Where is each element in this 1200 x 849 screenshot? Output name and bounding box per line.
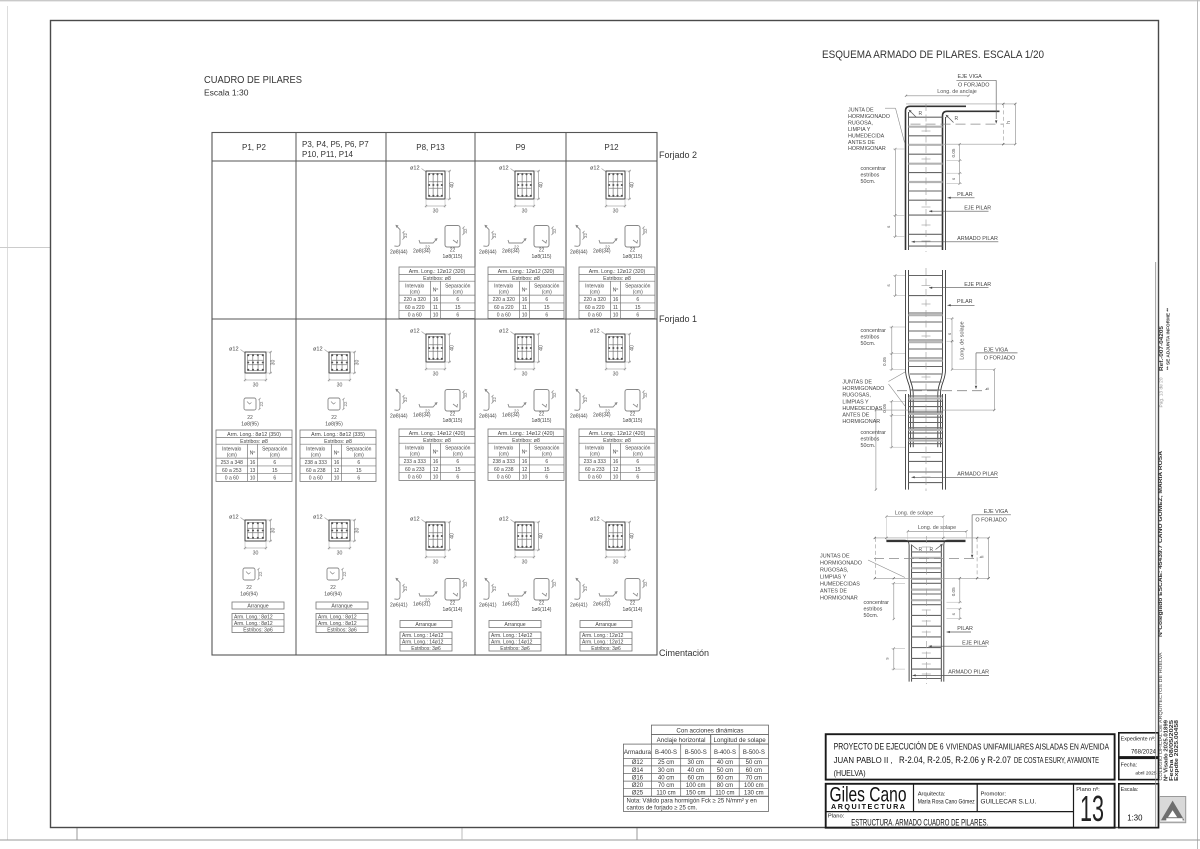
svg-text:ø12: ø12: [590, 517, 600, 523]
svg-text:R: R: [919, 111, 923, 117]
svg-text:(cm): (cm): [542, 452, 552, 458]
svg-text:Anclaje horizontal: Anclaje horizontal: [657, 737, 706, 744]
svg-text:Pág. 13 de 20: Pág. 13 de 20: [1159, 377, 1164, 408]
svg-text:(cm): (cm): [453, 452, 463, 458]
svg-text:238 a 333: 238 a 333: [305, 460, 327, 466]
svg-text:30: 30: [337, 383, 343, 389]
svg-text:1ø8(115): 1ø8(115): [532, 254, 552, 260]
dim 0.05 diagram 3: [959, 578, 961, 602]
svg-text:12: 12: [334, 468, 340, 474]
svg-text:ARMADO PILAR: ARMADO PILAR: [957, 236, 998, 242]
svg-text:Estribos: 3ø6: Estribos: 3ø6: [327, 627, 357, 633]
svg-text:Arm. Long.: 8ø12: Arm. Long.: 8ø12: [318, 615, 357, 621]
stirrups P8,P13 forjado1: [390, 389, 468, 425]
svg-text:LIMPIAS Y: LIMPIAS Y: [842, 399, 869, 405]
svg-text:15: 15: [455, 305, 461, 311]
svg-text:s: s: [947, 332, 952, 335]
svg-text:0 a 60: 0 a 60: [497, 475, 511, 481]
svg-text:Forjado 2: Forjado 2: [659, 150, 697, 160]
svg-text:30: 30: [522, 209, 528, 215]
svg-text:40: 40: [449, 345, 455, 351]
svg-text:ø12: ø12: [410, 517, 420, 523]
R radius arrow right: [947, 116, 954, 123]
svg-text:16: 16: [433, 297, 439, 303]
svg-text:ARMADO PILAR: ARMADO PILAR: [957, 472, 998, 478]
svg-text:Nº: Nº: [433, 450, 439, 456]
svg-text:Escala:: Escala:: [1121, 787, 1139, 793]
svg-text:10: 10: [433, 475, 439, 481]
svg-text:60 a 253: 60 a 253: [222, 468, 242, 474]
svg-text:Separación: Separación: [534, 283, 560, 289]
svg-text:O FORJADO: O FORJADO: [958, 83, 989, 89]
svg-text:40: 40: [538, 345, 544, 351]
svg-text:(cm): (cm): [311, 453, 321, 459]
svg-text:22: 22: [539, 248, 545, 254]
svg-text:6: 6: [636, 297, 639, 303]
svg-text:concentrar: concentrar: [861, 430, 887, 436]
arranque table P3-P7: [316, 602, 368, 633]
svg-text:16: 16: [522, 459, 528, 465]
svg-text:Nº: Nº: [334, 451, 340, 457]
svg-text:22: 22: [258, 571, 263, 576]
svg-text:Nota: Válido para hormigón Fck: Nota: Válido para hormigón Fck ≥ 25 N/mm…: [627, 799, 757, 805]
svg-text:6: 6: [545, 297, 548, 303]
svg-text:JUAN PABLO II ,: JUAN PABLO II ,: [834, 755, 893, 765]
svg-text:10: 10: [433, 313, 439, 319]
rebar B anchorage leg: [943, 111, 1000, 250]
svg-text:O FORJADO: O FORJADO: [975, 517, 1006, 523]
svg-text:Estribos: ø8: Estribos: ø8: [240, 439, 268, 445]
svg-text:PILAR: PILAR: [957, 192, 973, 198]
svg-text:(cm): (cm): [633, 452, 643, 458]
svg-text:30: 30: [270, 528, 276, 534]
svg-text:concentrar: concentrar: [861, 166, 887, 172]
svg-text:Separación: Separación: [445, 283, 471, 289]
svg-text:DE COSTA ESURY, AYAMONTE: DE COSTA ESURY, AYAMONTE: [1014, 755, 1099, 765]
lap splice funnel curves: [906, 370, 911, 395]
svg-text:220 a 320: 220 a 320: [404, 297, 426, 303]
stirrups P12 forjado1: [570, 389, 648, 425]
svg-text:Ø12: Ø12: [632, 760, 644, 766]
dim Long. de solape right diagram 2: [951, 319, 953, 370]
svg-text:60 a 233: 60 a 233: [585, 467, 605, 473]
svg-text:60 a 238: 60 a 238: [494, 467, 514, 473]
svg-text:40: 40: [449, 533, 455, 539]
svg-text:40: 40: [449, 182, 455, 188]
section 30x40 P9 forjado1: [499, 329, 544, 378]
column axis diagram 3: [925, 536, 927, 684]
svg-text:h: h: [980, 555, 986, 558]
svg-text:2ø6(41): 2ø6(41): [479, 603, 497, 609]
section 30x40 P8,P13 cimentacion: [410, 517, 455, 566]
left dims diagram 2: [891, 327, 893, 354]
svg-text:P12: P12: [604, 143, 619, 152]
svg-text:Arm. Long.: 12ø12 (320): Arm. Long.: 12ø12 (320): [589, 269, 646, 275]
svg-text:0.05: 0.05: [951, 148, 956, 157]
svg-text:ø12: ø12: [229, 347, 239, 353]
svg-text:María Rosa Cano Gómez: María Rosa Cano Gómez: [918, 799, 975, 806]
R radius arrow left: [910, 111, 917, 118]
svg-text:P9: P9: [516, 143, 526, 152]
svg-text:50cm.: 50cm.: [861, 443, 876, 449]
beam axis dashed diagram 2: [897, 390, 984, 392]
svg-text:12: 12: [613, 467, 619, 473]
svg-text:Ø14: Ø14: [632, 768, 644, 774]
svg-text:2ø8(34): 2ø8(34): [593, 249, 611, 255]
svg-text:32: 32: [583, 233, 588, 238]
svg-text:P10, P11, P14: P10, P11, P14: [302, 150, 354, 159]
svg-text:2ø8(44): 2ø8(44): [479, 250, 497, 256]
svg-text:Cimentación: Cimentación: [659, 648, 709, 658]
svg-text:ø12: ø12: [499, 329, 509, 335]
svg-text:Intervalo: Intervalo: [405, 445, 424, 451]
svg-text:R: R: [955, 116, 959, 122]
svg-text:2ø8(44): 2ø8(44): [390, 250, 408, 256]
dim 0.05 diagram 1: [959, 144, 961, 160]
svg-text:32: 32: [463, 392, 468, 397]
svg-text:(HUELVA): (HUELVA): [834, 768, 866, 778]
svg-text:11: 11: [522, 305, 527, 311]
fecha box: [1119, 758, 1159, 779]
svg-text:concentrar: concentrar: [861, 328, 887, 334]
svg-text:60 cm: 60 cm: [746, 768, 762, 774]
section 30x40 P8,P13 forjado2: [410, 166, 455, 215]
svg-text:30: 30: [337, 551, 343, 557]
svg-text:22: 22: [450, 601, 456, 607]
svg-text:Nº: Nº: [433, 288, 439, 294]
svg-text:0 a 60: 0 a 60: [225, 476, 239, 482]
svg-text:238 a 333: 238 a 333: [493, 459, 515, 465]
svg-text:ø12: ø12: [410, 166, 420, 172]
stirrups P9 forjado2: [479, 225, 557, 261]
svg-text:15: 15: [544, 305, 550, 311]
svg-text:1ø6(114): 1ø6(114): [532, 607, 552, 613]
page bottom rule: [0, 839, 1200, 841]
svg-text:1ø8(115): 1ø8(115): [443, 254, 463, 260]
svg-text:2ø8(44): 2ø8(44): [479, 414, 497, 420]
svg-text:Ø20: Ø20: [632, 783, 644, 789]
svg-text:15: 15: [635, 467, 641, 473]
svg-text:16: 16: [613, 459, 619, 465]
column bars diagram 2 lower lap (inner): [910, 394, 912, 447]
svg-text:40: 40: [538, 533, 544, 539]
stirrup P3-P7 cimentacion: [324, 568, 347, 597]
stirrup P1,P2 cimentacion: [240, 568, 263, 597]
svg-text:80 cm: 80 cm: [717, 783, 733, 789]
stirrup rungs diagram 3: [912, 551, 942, 553]
svg-text:Separación: Separación: [625, 283, 651, 289]
rebar table P9 forjado2: [488, 267, 564, 319]
svg-text:10: 10: [334, 476, 340, 482]
svg-text:estribos: estribos: [864, 607, 883, 613]
svg-text:6: 6: [273, 476, 276, 482]
svg-text:50 cm: 50 cm: [717, 768, 733, 774]
svg-text:10: 10: [250, 476, 256, 482]
svg-text:30 cm: 30 cm: [658, 768, 674, 774]
svg-text:0 a 60: 0 a 60: [309, 476, 323, 482]
svg-text:HORMIGONADO: HORMIGONADO: [848, 114, 890, 120]
stirrup P1,P2 forjado1: [241, 398, 264, 427]
svg-text:32: 32: [552, 228, 557, 233]
svg-text:** SE ADJUNTA INFORME **: ** SE ADJUNTA INFORME **: [1165, 308, 1170, 370]
svg-text:32: 32: [403, 233, 408, 238]
svg-text:50cm.: 50cm.: [861, 341, 876, 347]
svg-text:1ø8(34): 1ø8(34): [502, 413, 520, 419]
bottom fold tick 1: [76, 827, 78, 840]
svg-text:EJE PILAR: EJE PILAR: [964, 206, 991, 212]
svg-text:0.05: 0.05: [882, 403, 887, 412]
svg-text:Long. de solape: Long. de solape: [960, 321, 966, 359]
svg-text:(cm): (cm): [499, 290, 509, 296]
svg-text:220 a 320: 220 a 320: [584, 297, 606, 303]
svg-text:(cm): (cm): [542, 290, 552, 296]
svg-text:22: 22: [539, 412, 545, 418]
svg-text:Arm. Long.: 14ø12: Arm. Long.: 14ø12: [402, 640, 444, 646]
svg-text:Separación: Separación: [346, 446, 372, 452]
arranque table P8,P13: [400, 621, 452, 652]
svg-text:Nº: Nº: [250, 451, 256, 457]
svg-text:2ø8(34): 2ø8(34): [413, 249, 431, 255]
svg-text:JUNTA DE: JUNTA DE: [848, 108, 874, 114]
svg-text:6: 6: [636, 475, 639, 481]
svg-text:6: 6: [636, 313, 639, 319]
esquema diagram 3: column start at foundation: [820, 509, 1011, 684]
beam axis dashed diagram 3: [874, 558, 979, 560]
svg-text:LIMPIAS Y: LIMPIAS Y: [820, 575, 847, 581]
svg-text:EJE PILAR: EJE PILAR: [964, 282, 991, 288]
svg-text:P3, P4, P5, P6, P7: P3, P4, P5, P6, P7: [302, 140, 369, 149]
svg-text:Estribos: ø8: Estribos: ø8: [324, 439, 352, 445]
svg-text:ø12: ø12: [590, 329, 600, 335]
svg-text:Long. de anclaje: Long. de anclaje: [937, 89, 977, 95]
svg-text:estribos: estribos: [861, 172, 880, 178]
svg-text:220 a 320: 220 a 320: [493, 297, 515, 303]
svg-text:ø12: ø12: [410, 329, 420, 335]
svg-text:32: 32: [492, 586, 497, 591]
svg-text:Plano:: Plano:: [828, 814, 845, 820]
svg-text:Intervalo: Intervalo: [585, 445, 604, 451]
section 30x40 P12 forjado1: [590, 329, 635, 378]
section 30x40 P9 forjado2: [499, 166, 544, 215]
svg-text:HUMEDECIDAS: HUMEDECIDAS: [842, 406, 882, 412]
svg-text:40: 40: [629, 182, 635, 188]
svg-text:Arm. Long.: 14ø12 (420): Arm. Long.: 14ø12 (420): [409, 431, 466, 437]
esquema diagram 1: column head at beam: [848, 74, 1016, 252]
svg-text:32: 32: [643, 581, 648, 586]
svg-text:Arranque: Arranque: [331, 603, 352, 609]
svg-text:22: 22: [259, 401, 264, 406]
svg-text:Ref.-007-04205: Ref.-007-04205: [1159, 326, 1165, 371]
svg-text:2ø6(41): 2ø6(41): [570, 603, 588, 609]
svg-text:30: 30: [433, 560, 439, 566]
rebar table P12 forjado1: [579, 429, 655, 481]
svg-text:1:30: 1:30: [1127, 814, 1143, 823]
svg-text:6: 6: [545, 459, 548, 465]
colegio logo: [1160, 797, 1186, 823]
svg-text:h: h: [1006, 121, 1012, 124]
svg-text:VIVIENDAS UNIFAMILIARES AISLAD: VIVIENDAS UNIFAMILIARES AISLADAS EN AVEN…: [946, 742, 1109, 752]
svg-text:abril 2025: abril 2025: [1135, 771, 1156, 777]
svg-text:Arranque: Arranque: [247, 603, 268, 609]
svg-text:2ø6(41): 2ø6(41): [390, 603, 408, 609]
svg-text:32: 32: [492, 397, 497, 402]
svg-text:Nº: Nº: [522, 288, 528, 294]
svg-text:0.05: 0.05: [882, 357, 887, 366]
svg-text:6: 6: [636, 459, 639, 465]
svg-text:s: s: [951, 612, 956, 615]
svg-text:Estribos: 3ø6: Estribos: 3ø6: [591, 646, 621, 652]
svg-text:40 cm: 40 cm: [658, 775, 674, 781]
svg-text:Long. de solape: Long. de solape: [895, 511, 933, 517]
svg-text:RUGOSAS,: RUGOSAS,: [842, 393, 871, 399]
svg-text:1ø8(95): 1ø8(95): [325, 421, 343, 427]
svg-text:22: 22: [630, 412, 636, 418]
svg-text:Arm. Long.: 14ø12 (420): Arm. Long.: 14ø12 (420): [498, 431, 555, 437]
svg-text:0 a 60: 0 a 60: [588, 475, 602, 481]
svg-text:50cm.: 50cm.: [861, 179, 876, 185]
main table column divider 4: [565, 133, 567, 656]
svg-text:32: 32: [492, 233, 497, 238]
section 30x40 P12 forjado2: [590, 166, 635, 215]
svg-text:32: 32: [403, 586, 408, 591]
page edge left faint line: [7, 6, 9, 840]
svg-text:P1, P2: P1, P2: [242, 143, 267, 152]
svg-text:Intervalo: Intervalo: [405, 283, 424, 289]
svg-text:EJE VIGA: EJE VIGA: [958, 74, 983, 80]
svg-text:6: 6: [456, 459, 459, 465]
svg-text:2ø8(44): 2ø8(44): [570, 250, 588, 256]
svg-text:Arm. Long.: 8ø12: Arm. Long.: 8ø12: [318, 621, 357, 627]
svg-text:22: 22: [343, 401, 348, 406]
svg-text:32: 32: [583, 397, 588, 402]
svg-text:B-500-S: B-500-S: [743, 750, 765, 756]
svg-text:32: 32: [463, 581, 468, 586]
arranque table P12: [580, 621, 632, 652]
svg-text:0.05: 0.05: [951, 587, 956, 596]
svg-text:Arm. Long.: 8ø12 (335): Arm. Long.: 8ø12 (335): [311, 432, 365, 438]
svg-text:ø12: ø12: [590, 166, 600, 172]
svg-text:(cm): (cm): [410, 290, 420, 296]
svg-text:(cm): (cm): [499, 452, 509, 458]
svg-text:15: 15: [544, 467, 550, 473]
svg-text:22: 22: [630, 601, 636, 607]
svg-text:30 cm: 30 cm: [688, 760, 704, 766]
arranque table P9: [489, 621, 541, 652]
svg-text:Arm. Long.: 14ø12: Arm. Long.: 14ø12: [491, 633, 533, 639]
stirrups P8,P13 forjado2: [390, 225, 468, 261]
svg-text:6: 6: [357, 476, 360, 482]
svg-text:1ø8(34): 1ø8(34): [413, 413, 431, 419]
svg-text:2ø8(34): 2ø8(34): [593, 413, 611, 419]
svg-text:32: 32: [403, 397, 408, 402]
svg-text:150 cm: 150 cm: [686, 791, 706, 797]
svg-text:15: 15: [635, 305, 641, 311]
svg-text:Forjado 1: Forjado 1: [659, 314, 697, 324]
page edge shadow top: [0, 0, 1200, 2]
rebar table P8,P13 forjado1: [399, 429, 475, 481]
dim h right diagram 1: [906, 103, 1015, 105]
main table column divider 3: [474, 133, 476, 656]
svg-text:Intervalo: Intervalo: [494, 445, 513, 451]
left dim line diagram 1: [894, 149, 896, 215]
svg-text:30: 30: [613, 560, 619, 566]
svg-text:RUGOSAS,: RUGOSAS,: [820, 568, 849, 574]
svg-text:1ø6(94): 1ø6(94): [324, 591, 342, 597]
svg-text:Armadura: Armadura: [624, 749, 652, 756]
svg-text:(cm): (cm): [410, 452, 420, 458]
svg-text:6: 6: [545, 313, 548, 319]
rebar table P9 forjado1: [488, 429, 564, 481]
svg-text:Separación: Separación: [445, 445, 471, 451]
svg-text:(cm): (cm): [590, 290, 600, 296]
svg-text:60 a 238: 60 a 238: [306, 468, 326, 474]
stirrups P9 forjado1: [479, 389, 557, 425]
title block: project title box: [826, 734, 1115, 779]
dim s right diagram 1: [959, 173, 961, 183]
column axis diagram 1: [925, 104, 927, 252]
svg-text:Estribos: ø8: Estribos: ø8: [423, 276, 451, 282]
svg-text:40: 40: [629, 533, 635, 539]
svg-text:233 a 333: 233 a 333: [584, 459, 606, 465]
svg-text:253 a 348: 253 a 348: [221, 460, 243, 466]
svg-text:HORMIGONADO: HORMIGONADO: [820, 561, 862, 567]
svg-text:11: 11: [433, 305, 438, 311]
svg-text:12: 12: [522, 467, 528, 473]
svg-text:30: 30: [354, 528, 360, 534]
svg-text:1ø8(95): 1ø8(95): [241, 421, 259, 427]
svg-text:768/2024: 768/2024: [1131, 750, 1157, 756]
svg-text:1ø6(31): 1ø6(31): [413, 602, 431, 608]
stirrups P12 cimentacion: [570, 578, 648, 614]
expediente box: [1119, 733, 1159, 757]
rebar table P3-P7 forjado1: [300, 430, 376, 482]
svg-text:40 cm: 40 cm: [688, 768, 704, 774]
R labels diagram 3: [911, 545, 918, 550]
svg-text:B-400-S: B-400-S: [655, 750, 677, 756]
svg-text:HORMIGONADO: HORMIGONADO: [842, 386, 884, 392]
svg-text:22: 22: [247, 415, 253, 421]
svg-text:1ø6(114): 1ø6(114): [623, 607, 643, 613]
svg-text:ø12: ø12: [229, 515, 239, 521]
svg-text:60 a 220: 60 a 220: [405, 305, 425, 311]
svg-text:13: 13: [250, 468, 256, 474]
esquema diagram 2: column lap splice at floor: [842, 268, 1017, 491]
main table forjado1 line: [212, 318, 657, 320]
svg-text:Promotor:: Promotor:: [981, 792, 1007, 798]
svg-text:Arm. Long.: 8ø12: Arm. Long.: 8ø12: [234, 615, 273, 621]
upper dim level line diagram 3: [875, 537, 989, 539]
svg-text:Separación: Separación: [625, 445, 651, 451]
svg-text:Ø16: Ø16: [632, 775, 644, 781]
rebar A anchorage leg: [906, 106, 967, 250]
svg-text:PILAR: PILAR: [957, 299, 973, 305]
section 30x30 P3-P7 cimentacion: [313, 515, 360, 557]
svg-text:Intervalo: Intervalo: [585, 283, 604, 289]
svg-text:2ø8(34): 2ø8(34): [502, 249, 520, 255]
svg-text:Arranque: Arranque: [595, 622, 616, 628]
stirrup P3-P7 forjado1: [325, 398, 348, 427]
svg-text:Long. de solape: Long. de solape: [918, 525, 956, 531]
svg-text:10: 10: [522, 313, 528, 319]
left margin fold mark: [0, 247, 50, 249]
section 30x40 P12 cimentacion: [590, 517, 635, 566]
svg-text:Estribos: ø8: Estribos: ø8: [603, 438, 631, 444]
stirrups P9 cimentacion: [479, 578, 557, 614]
svg-text:Arm. Long.: 12ø12: Arm. Long.: 12ø12: [582, 633, 624, 639]
visado stamp separator line: [1155, 262, 1157, 827]
svg-text:ANTES DE: ANTES DE: [848, 140, 875, 146]
svg-text:Arm. Long.: 14ø12: Arm. Long.: 14ø12: [491, 640, 533, 646]
